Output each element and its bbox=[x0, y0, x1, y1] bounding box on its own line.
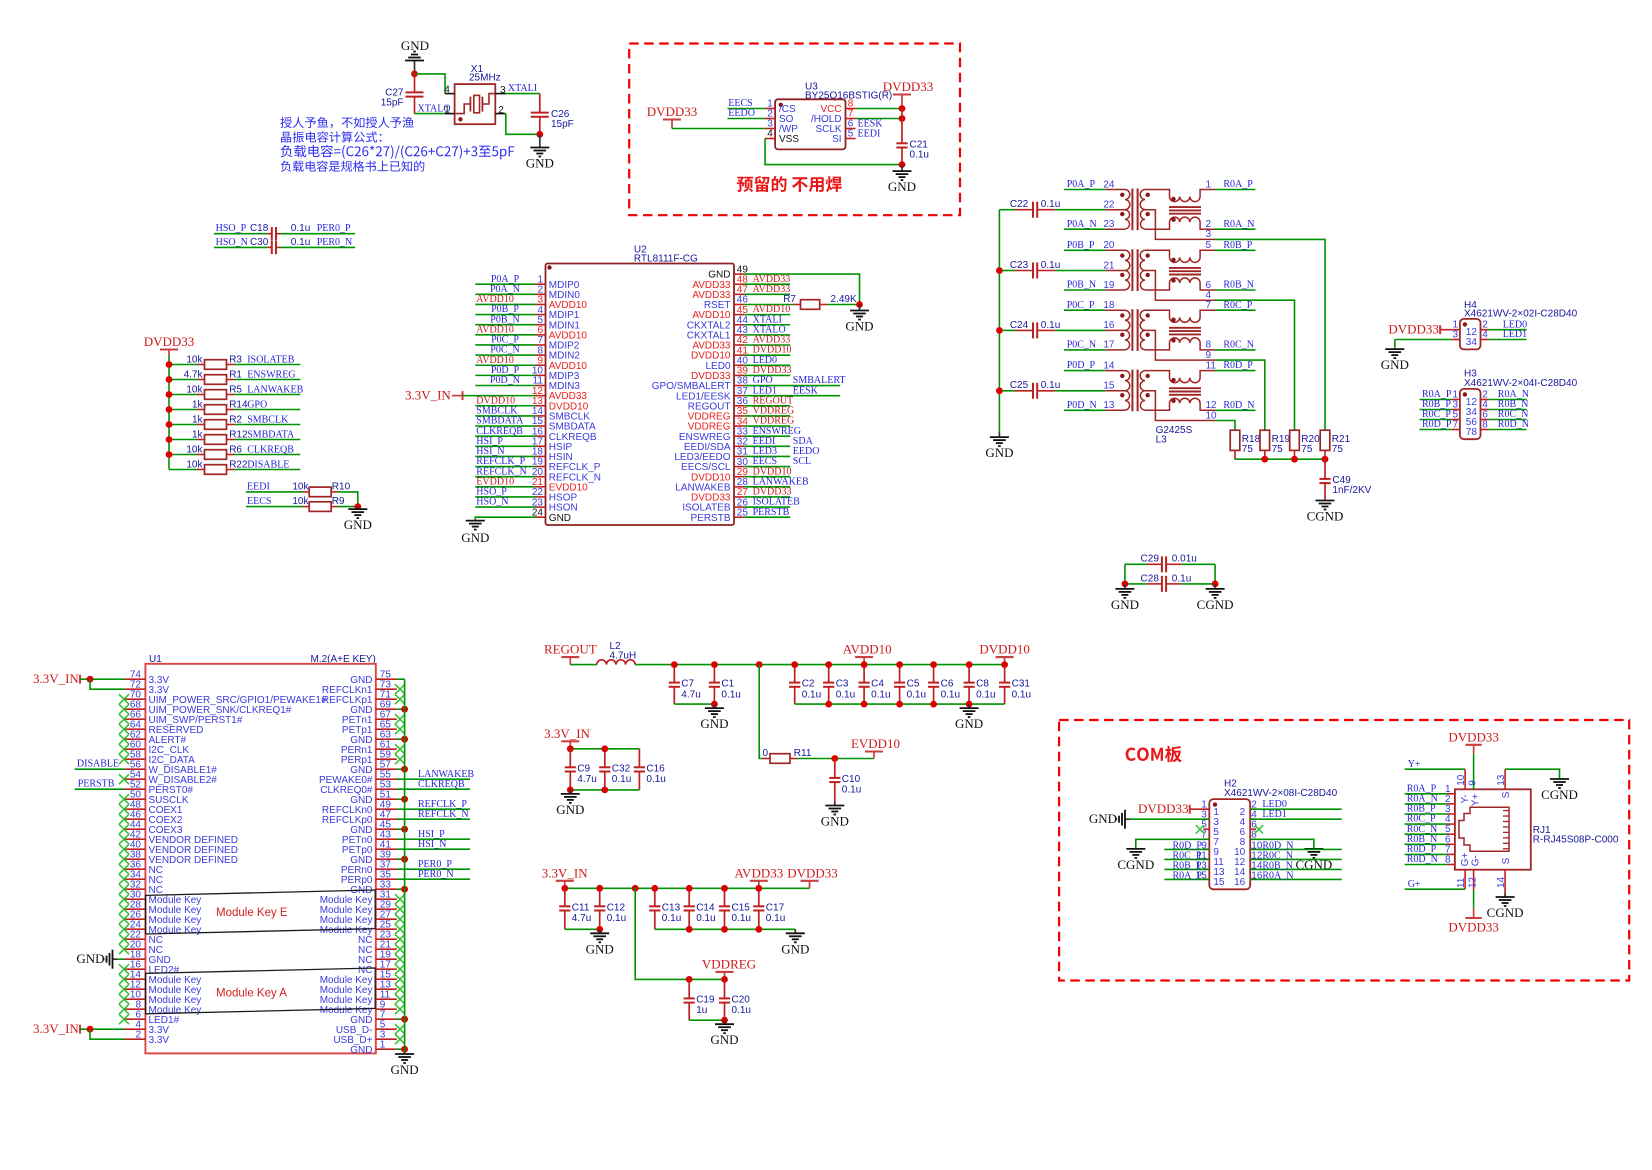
svg-text:GND: GND bbox=[586, 941, 614, 956]
capacitor C7 4.7u bbox=[669, 665, 701, 705]
svg-text:X4621WV-2×02I-C28D40: X4621WV-2×02I-C28D40 bbox=[1464, 308, 1578, 319]
wire H2 pin 15 R0A_P bbox=[1164, 878, 1209, 880]
power flag EVDD10 bbox=[851, 736, 900, 759]
svg-text:DVDD33: DVDD33 bbox=[787, 865, 838, 880]
capacitor C8 0.1u bbox=[964, 665, 996, 705]
capacitor C20 0.1u bbox=[719, 979, 751, 1020]
svg-text:DISABLE: DISABLE bbox=[247, 459, 289, 470]
wire U3 HOLD to DVDD33 bbox=[856, 118, 902, 120]
RJ1 top pin numbers bbox=[1456, 774, 1507, 786]
U1 pin 53 CLKREQ0# bbox=[320, 779, 397, 796]
junction C1 bottom bbox=[711, 701, 718, 708]
svg-text:15pF: 15pF bbox=[381, 97, 404, 108]
U1 pin 50 SUSCLK bbox=[125, 789, 189, 806]
no-connect U1 pin 38 bbox=[119, 854, 129, 864]
U1 pin 46 COEX2 bbox=[125, 809, 183, 826]
svg-text:24: 24 bbox=[1103, 179, 1115, 190]
power flag 3.3V_IN bottom left bbox=[33, 1021, 80, 1036]
capacitor C12 0.1u bbox=[594, 888, 626, 929]
svg-text:GND: GND bbox=[76, 951, 104, 966]
wire EEDO to U3 pin2 bbox=[728, 118, 766, 120]
U2 pin 2 MDIN0 bbox=[536, 285, 581, 301]
svg-text:DVDD33: DVDD33 bbox=[1448, 730, 1499, 745]
svg-text:R12: R12 bbox=[229, 429, 248, 440]
power flag DVDD33 above resistor array bbox=[144, 334, 195, 355]
svg-text:3.3V_IN: 3.3V_IN bbox=[405, 388, 451, 403]
svg-text:C3: C3 bbox=[836, 679, 849, 690]
junction ground rail C13 group bbox=[686, 926, 693, 933]
wire X1 pin2 to ground node bbox=[506, 114, 540, 135]
power flag 3.3V_IN at U2 pin12 bbox=[405, 388, 463, 403]
svg-text:4.7uH: 4.7uH bbox=[610, 651, 637, 662]
junction ground bus pin 51 bbox=[401, 796, 408, 803]
U1 pin 33 GND bbox=[350, 879, 397, 896]
svg-text:PERSTB: PERSTB bbox=[78, 779, 115, 790]
svg-text:C15: C15 bbox=[732, 902, 751, 913]
svg-text:R1: R1 bbox=[229, 369, 242, 380]
junction ground bus pin 1 bbox=[401, 1046, 408, 1053]
U2 pin 29 DVDD10 bbox=[691, 467, 748, 483]
wire H4 pin2 LED0 bbox=[1489, 329, 1527, 331]
U2 pin 17 HSIP bbox=[532, 436, 573, 452]
svg-text:R11: R11 bbox=[794, 748, 812, 759]
power flag DVDD33 left of U3 bbox=[647, 104, 698, 129]
svg-text:HSO_P: HSO_P bbox=[216, 223, 247, 234]
U1 pin 74 3.3V bbox=[125, 669, 170, 686]
svg-text:C17: C17 bbox=[766, 902, 785, 913]
U1 pin 13 Module Key bbox=[320, 979, 397, 996]
svg-text:AVDD10: AVDD10 bbox=[843, 642, 892, 657]
U2 pin 6 AVDD10 bbox=[536, 325, 588, 341]
ground GND below C1 bbox=[700, 704, 728, 731]
svg-text:C4: C4 bbox=[871, 679, 884, 690]
capacitor C17 0.1u bbox=[753, 888, 785, 929]
header H2 X4621WV-2x08I-C28D40 bbox=[1203, 778, 1337, 889]
wire C7 C1 ground rail bbox=[674, 703, 714, 705]
rj45 jack RJ1 R-RJ45S08P-C000 bbox=[1455, 789, 1619, 869]
junction R21 bottom bbox=[1322, 456, 1329, 463]
no-connect U1 pin 62 bbox=[119, 734, 129, 744]
no-connect U1 pin 30 bbox=[119, 894, 129, 904]
capacitor C1 0.1u bbox=[709, 665, 741, 705]
junction bus row R2 bbox=[166, 421, 173, 428]
wire XTALI to C26 bbox=[506, 93, 540, 95]
wire GND to U1 pin18 bbox=[118, 958, 125, 960]
svg-text:HSO_N: HSO_N bbox=[476, 497, 508, 508]
no-connect U1 pin 71 bbox=[395, 694, 405, 704]
U2 pin 34 VDDREG bbox=[688, 416, 749, 432]
no-connect U1 pin 66 bbox=[119, 714, 129, 724]
wire center tap row C23 bbox=[1064, 270, 1105, 272]
junction C10 node bbox=[831, 755, 838, 762]
svg-text:REFCLK_N: REFCLK_N bbox=[418, 809, 469, 820]
svg-text:C12: C12 bbox=[607, 902, 626, 913]
U1 pin 29 Module Key bbox=[320, 899, 397, 916]
junction VSS ground node bbox=[899, 161, 906, 168]
ground CGND right of H2 pin8 bbox=[1295, 848, 1332, 872]
resistor R12 1k bbox=[169, 429, 300, 444]
svg-text:C6: C6 bbox=[941, 679, 954, 690]
capacitor C49 1nF/2KV bbox=[1319, 459, 1371, 500]
svg-text:75: 75 bbox=[1272, 444, 1284, 455]
resistor R5 10k bbox=[169, 384, 300, 399]
svg-text:EVDD10: EVDD10 bbox=[851, 736, 900, 751]
U1 pin 17 NC bbox=[358, 959, 397, 976]
svg-text:5: 5 bbox=[1206, 240, 1212, 251]
U1 pin 62 ALERT# bbox=[125, 729, 187, 746]
svg-text:PER0_P: PER0_P bbox=[317, 223, 351, 234]
wire H2 pin2 LED0 bbox=[1250, 808, 1342, 810]
svg-text:P0B_N: P0B_N bbox=[1067, 280, 1096, 291]
junction 3.3V rail C9 bbox=[567, 745, 574, 752]
junction rail C8 bbox=[966, 661, 973, 668]
wire U2 pin 41 bbox=[744, 354, 790, 356]
svg-text:0.1u: 0.1u bbox=[696, 913, 715, 924]
ground GND left of H2 pin3 bbox=[1089, 810, 1130, 829]
U2 pin 32 EEDI/SDA bbox=[684, 437, 749, 453]
wire PERSTB to U1 pin52 bbox=[75, 788, 125, 790]
svg-text:3.3V: 3.3V bbox=[149, 1035, 170, 1046]
junction ground rail bbox=[896, 701, 903, 708]
U1 pin 51 GND bbox=[350, 789, 397, 806]
U2 pin 8 MDIN2 bbox=[536, 345, 581, 361]
no-connect U1 pin 40 bbox=[119, 844, 129, 854]
wire U2 pin24 to ground bbox=[475, 517, 535, 520]
wire DVDD33 to H2 pin1 bbox=[1190, 808, 1210, 810]
no-connect U1 pin 23 bbox=[395, 934, 405, 944]
no-connect H2 pin6 bbox=[1255, 825, 1263, 833]
wire U2 pin 39 bbox=[744, 374, 790, 376]
wire U3 VSS to ground bbox=[765, 139, 902, 165]
wire U1 pin 55 LANWAKEB bbox=[397, 778, 470, 780]
wire U2 pin 14 bbox=[475, 415, 535, 417]
transformer unit P0D_P windings bbox=[1103, 360, 1215, 420]
U2 pin 24 GND bbox=[532, 507, 571, 523]
wire U2 pin 19 bbox=[475, 466, 535, 468]
U1 pin 55 PEWAKE0# bbox=[319, 769, 397, 786]
svg-text:1: 1 bbox=[1206, 179, 1212, 190]
wire XTALO-C27 to X1 pin4 bbox=[415, 74, 446, 94]
no-connect U1 pin 54 bbox=[119, 774, 129, 784]
junction ground bus pin 69 bbox=[401, 706, 408, 713]
RJ1 pin 2 R0A_N bbox=[1405, 794, 1455, 805]
H3 pin 6 R0C_N bbox=[1481, 409, 1529, 420]
capacitor C32 0.1u bbox=[599, 749, 631, 790]
wire U2 pin 28 bbox=[744, 486, 790, 488]
svg-text:0.1u: 0.1u bbox=[662, 913, 681, 924]
wire U2 pin 9 bbox=[475, 364, 535, 366]
ground CGND below H2 pin7 bbox=[1117, 848, 1154, 872]
wire center tap pin 3 to termination bbox=[1215, 239, 1325, 430]
svg-text:0.1u: 0.1u bbox=[836, 689, 855, 700]
junction R10 R9 node bbox=[354, 503, 361, 510]
junction bus C24 bbox=[996, 327, 1003, 334]
svg-text:1u: 1u bbox=[696, 1005, 707, 1016]
wire U1 pin 53 CLKREQB bbox=[397, 788, 470, 790]
no-connect U1 pin 6 bbox=[119, 1014, 129, 1024]
junction VCC node bbox=[899, 105, 906, 112]
U1 pin 6 LED1# bbox=[125, 1009, 180, 1026]
svg-text:DISABLE: DISABLE bbox=[77, 759, 119, 770]
svg-text:0.1u: 0.1u bbox=[941, 689, 960, 700]
svg-text:CGND: CGND bbox=[1307, 509, 1344, 524]
svg-text:C14: C14 bbox=[696, 902, 715, 913]
wire U1 pin 43 HSI_P bbox=[397, 838, 470, 840]
no-connect U1 pin 5 bbox=[395, 1024, 405, 1034]
wire AVDD33 DVDD33 rail bbox=[565, 887, 810, 889]
U1 pin 52 PERST0# bbox=[125, 779, 194, 796]
wire U3 VCC to DVDD33 bbox=[856, 108, 902, 110]
ground GND below R9 bbox=[344, 507, 372, 532]
transformer L3 G2425S labels bbox=[1156, 425, 1193, 446]
svg-text:2: 2 bbox=[498, 105, 504, 116]
svg-text:G+: G+ bbox=[1408, 879, 1421, 890]
wire U1 pin 41 HSI_N bbox=[397, 848, 470, 850]
U1 pin 31 Module Key bbox=[320, 889, 397, 906]
power flag 3.3V_IN avdd33 rail bbox=[542, 865, 588, 888]
U1 pin 8 Module Key bbox=[125, 999, 202, 1016]
wire center tap pin 9 to termination bbox=[1215, 360, 1265, 430]
wire U1 pin 69 to ground bus bbox=[397, 708, 405, 710]
no-connect U1 pin 50 bbox=[119, 794, 129, 804]
ground GND below C20 bbox=[710, 1020, 738, 1047]
wire U2 pin 47 bbox=[744, 293, 790, 295]
capacitor C14 0.1u bbox=[684, 888, 716, 929]
power flag DVDD33 rail end bbox=[787, 865, 838, 888]
U2 pin 47 AVDD33 bbox=[692, 285, 748, 301]
U2 pin 37 LED1/EESK bbox=[676, 386, 748, 402]
svg-text:EESK: EESK bbox=[793, 385, 819, 396]
U2 pin 7 MDIP2 bbox=[536, 335, 580, 351]
U1 pin 40 VENDOR DEFINED bbox=[125, 839, 238, 856]
no-connect U1 pin 68 bbox=[119, 704, 129, 714]
no-connect U1 pin 10 bbox=[119, 994, 129, 1004]
wire U2 pin 43 bbox=[744, 334, 790, 336]
power flag DVDD33 above C21 bbox=[883, 79, 934, 109]
U1 pin 75 GND bbox=[350, 669, 397, 686]
wire H2 pin 10 R0D_N bbox=[1250, 848, 1342, 850]
wire U2 pin 42 bbox=[744, 344, 790, 346]
wire U2 pin 35 bbox=[744, 415, 790, 417]
svg-text:GND: GND bbox=[401, 38, 429, 53]
svg-text:0.1u: 0.1u bbox=[1041, 320, 1060, 331]
svg-text:R0C_P: R0C_P bbox=[1223, 300, 1252, 311]
wire U2 pin 21 bbox=[475, 486, 535, 488]
wire H2 pin8 to CGND bbox=[1250, 839, 1314, 848]
U2 pin 22 HSOP bbox=[532, 487, 578, 503]
transformer unit P0A_P windings bbox=[1103, 179, 1215, 239]
svg-text:R-RJ45S08P-C000: R-RJ45S08P-C000 bbox=[1533, 835, 1619, 846]
no-connect U1 pin 67 bbox=[395, 714, 405, 724]
wire secondary R0A_N bbox=[1215, 228, 1256, 230]
wire primary P0B_P bbox=[1064, 249, 1105, 251]
svg-text:C11: C11 bbox=[572, 902, 590, 913]
ground GND below C28 left bbox=[1111, 584, 1139, 612]
wire C19 C20 ground rail bbox=[689, 1019, 724, 1021]
svg-text:15: 15 bbox=[1213, 877, 1225, 888]
capacitor C9 4.7u bbox=[565, 749, 597, 790]
wire H4 pin4 LED1 bbox=[1489, 339, 1527, 341]
svg-text:GND: GND bbox=[845, 318, 873, 333]
U2 pin 9 AVDD10 bbox=[536, 355, 588, 371]
svg-text:CGND: CGND bbox=[1541, 787, 1578, 802]
H3 pin 7 R0D_P bbox=[1420, 419, 1460, 430]
wire primary P0A_P bbox=[1064, 189, 1105, 191]
U2 pin 44 CKXTAL2 bbox=[687, 315, 749, 331]
svg-text:AVDD33: AVDD33 bbox=[734, 865, 783, 880]
U2 pin 42 AVDD33 bbox=[692, 335, 748, 351]
ground CGND below RJ1 pin14 bbox=[1487, 893, 1524, 920]
junction C9 bottom bbox=[567, 787, 574, 794]
wire U2 pin 6 bbox=[475, 334, 535, 336]
svg-text:15pF: 15pF bbox=[551, 119, 574, 130]
svg-text:XTALI: XTALI bbox=[508, 83, 537, 94]
svg-text:8: 8 bbox=[1482, 420, 1488, 431]
U2 pin 33 ENSWREG bbox=[679, 426, 749, 442]
no-connect U1 pin 27 bbox=[395, 914, 405, 924]
capacitor C3 0.1u bbox=[823, 665, 855, 705]
junction bus row R5 bbox=[166, 391, 173, 398]
wire U2 pin 29 bbox=[744, 476, 790, 478]
no-connect U1 pin 34 bbox=[119, 874, 129, 884]
wire U1 pin 49 REFCLK_P bbox=[397, 808, 470, 810]
wire RJ1 pin13 to CGND bbox=[1504, 769, 1506, 789]
svg-text:9: 9 bbox=[1467, 780, 1478, 786]
no-connect U1 pin 29 bbox=[395, 904, 405, 914]
U2 pin 27 DVDD33 bbox=[691, 487, 748, 503]
U1 pin 34 NC bbox=[125, 869, 163, 886]
svg-text:1: 1 bbox=[444, 104, 450, 115]
svg-text:C1: C1 bbox=[721, 679, 734, 690]
svg-text:10: 10 bbox=[1206, 410, 1218, 421]
svg-text:R0D_N: R0D_N bbox=[1223, 400, 1254, 411]
svg-text:LED1: LED1 bbox=[1503, 329, 1527, 340]
junction 3.3V branch bbox=[87, 676, 94, 683]
module key E outline bbox=[146, 890, 376, 934]
svg-text:R0A_N: R0A_N bbox=[1223, 219, 1254, 230]
U1 pin 63 GND bbox=[350, 729, 397, 746]
U1 pin 22 NC bbox=[125, 929, 163, 946]
svg-text:ENSWREG: ENSWREG bbox=[247, 369, 295, 380]
wire U2 pin 27 bbox=[744, 496, 790, 498]
no-connect U1 pin 44 bbox=[119, 824, 129, 834]
svg-text:75: 75 bbox=[1242, 444, 1254, 455]
svg-text:17: 17 bbox=[1103, 340, 1115, 351]
svg-text:GND: GND bbox=[955, 716, 983, 731]
svg-text:SMBCLK: SMBCLK bbox=[247, 414, 289, 425]
svg-text:GND: GND bbox=[985, 445, 1013, 460]
svg-text:4: 4 bbox=[444, 84, 450, 95]
junction ground rail bbox=[966, 701, 973, 708]
junction C20 bottom bbox=[721, 1017, 728, 1024]
wire center tap row C25 bbox=[1064, 390, 1105, 392]
svg-text:R6: R6 bbox=[229, 444, 242, 455]
svg-text:3.3V_IN: 3.3V_IN bbox=[33, 1021, 79, 1036]
svg-text:C13: C13 bbox=[662, 902, 681, 913]
svg-text:0.1u: 0.1u bbox=[842, 785, 861, 796]
svg-text:SI: SI bbox=[832, 134, 841, 145]
capacitor C23 0.1u bbox=[999, 260, 1064, 279]
U1 pin 18 GND bbox=[125, 949, 171, 966]
U1 pin 57 GND bbox=[350, 759, 397, 776]
svg-text:R0D_P: R0D_P bbox=[1422, 419, 1452, 430]
power flag DVDD33 left of H2 bbox=[1138, 801, 1190, 816]
no-connect U1 pin 61 bbox=[395, 744, 405, 754]
no-connect U1 pin 46 bbox=[119, 814, 129, 824]
svg-text:C16: C16 bbox=[646, 763, 665, 774]
wire secondary R0D_P bbox=[1215, 370, 1256, 372]
capacitor C16 0.1u bbox=[634, 749, 666, 790]
svg-text:0.1u: 0.1u bbox=[1041, 260, 1060, 271]
svg-text:R0D_N: R0D_N bbox=[1498, 419, 1529, 430]
wire U2 pin 38 bbox=[744, 385, 840, 387]
svg-text:GND: GND bbox=[888, 179, 916, 194]
power flag DVDD33 above RJ1 bbox=[1448, 730, 1499, 754]
svg-text:C23: C23 bbox=[1010, 260, 1029, 271]
junction C28 left bbox=[1122, 581, 1129, 588]
svg-text:14: 14 bbox=[1496, 876, 1507, 888]
U2 pin 49 GND bbox=[708, 264, 748, 280]
U1 pin 44 COEX3 bbox=[125, 819, 183, 836]
svg-text:PER0_N: PER0_N bbox=[317, 237, 353, 248]
no-connect U1 pin 64 bbox=[119, 724, 129, 734]
svg-text:0.1u: 0.1u bbox=[871, 689, 890, 700]
U2 pin 30 EECS/SCL bbox=[681, 457, 748, 473]
junction bus row R14 bbox=[166, 406, 173, 413]
no-connect U1 pin 17 bbox=[395, 964, 405, 974]
U1 pin 24 Module Key bbox=[125, 919, 202, 936]
U1 pin 61 PERn1 bbox=[341, 739, 397, 756]
ground CGND below C28 right bbox=[1197, 584, 1234, 612]
svg-text:P0C_P: P0C_P bbox=[1067, 300, 1095, 311]
wire AVDD10 DVDD10 rail bbox=[635, 664, 1004, 666]
svg-text:GND: GND bbox=[1381, 357, 1409, 372]
svg-text:R10: R10 bbox=[332, 481, 351, 492]
resistor R9 10k bbox=[246, 496, 358, 511]
wire primary P0B_N bbox=[1064, 289, 1105, 291]
U2 pin 1 MDIP0 bbox=[536, 274, 580, 290]
svg-text:C20: C20 bbox=[732, 994, 751, 1005]
junction rail C12 bbox=[596, 885, 603, 892]
svg-text:0.01u: 0.01u bbox=[1172, 554, 1197, 565]
U2 pin 11 MDIN3 bbox=[533, 376, 581, 392]
junction rail C14 bbox=[686, 885, 693, 892]
U1 pin 42 VENDOR DEFINED bbox=[125, 829, 238, 846]
svg-text:1k: 1k bbox=[192, 414, 204, 425]
capacitor C18 0.1u in series bbox=[214, 223, 355, 240]
wire H2 pin 12 R0C_N bbox=[1250, 858, 1342, 860]
wire U2 pin 30 bbox=[744, 466, 790, 468]
H3 pin 4 R0B_N bbox=[1481, 399, 1529, 410]
svg-text:15: 15 bbox=[1196, 871, 1208, 882]
svg-text:P0C_N: P0C_N bbox=[1067, 340, 1096, 351]
junction EVDD10 branch bbox=[756, 661, 763, 668]
svg-text:10k: 10k bbox=[186, 444, 203, 455]
svg-text:GND: GND bbox=[391, 1062, 419, 1077]
ethernet controller U2 RTL8111F-CG bbox=[546, 244, 735, 525]
svg-text:0.1u: 0.1u bbox=[291, 223, 310, 234]
wire U2 pin 25 bbox=[744, 516, 790, 518]
transformer unit P0C_P windings bbox=[1103, 300, 1215, 360]
no-connect U1 pin 60 bbox=[119, 744, 129, 754]
junction ground bus pin 57 bbox=[401, 766, 408, 773]
ground CGND below C49 bbox=[1307, 500, 1344, 524]
junction C28 right bbox=[1212, 581, 1219, 588]
wire U2 pin 33 bbox=[744, 435, 790, 437]
ground GND top of crystal bbox=[401, 38, 429, 74]
wire U2 pin 3 bbox=[475, 303, 535, 305]
svg-text:LED1: LED1 bbox=[1262, 809, 1286, 820]
